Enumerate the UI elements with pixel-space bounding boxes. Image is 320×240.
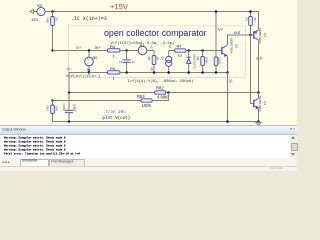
capacitor C1 bbox=[123, 51, 131, 73]
V+ feed wire bbox=[215, 12, 217, 58]
R8 rotated labels bbox=[196, 57, 208, 64]
svg-text:Q1: Q1 bbox=[263, 33, 267, 37]
svg-text:MMBT3904: MMBT3904 bbox=[258, 28, 262, 44]
resistor R1 bbox=[249, 12, 253, 36]
resistor R81 bbox=[51, 101, 55, 122]
feedback wire to out bbox=[69, 92, 155, 94]
R9 rotated labels bbox=[218, 57, 222, 64]
junction C1 bottom bbox=[125, 71, 128, 74]
svg-text:B0: B0 bbox=[93, 55, 99, 60]
svg-text:V=V(in+)-V(in-): V=V(in+)-V(in-) bbox=[66, 74, 100, 79]
junction C100 rail bbox=[68, 120, 71, 123]
svg-text:V-: V- bbox=[229, 79, 234, 84]
svg-text:1K: 1K bbox=[156, 57, 160, 61]
wire V5 to rail bbox=[45, 11, 52, 13]
wire in+ horizontal bbox=[53, 50, 108, 52]
R80 rotated labels bbox=[45, 18, 58, 24]
svg-text:MMBT3904: MMBT3904 bbox=[230, 38, 234, 54]
junction R1 rail bbox=[249, 10, 252, 13]
wire in- horizontal bbox=[69, 73, 89, 93]
svg-text:in+: in+ bbox=[95, 45, 101, 50]
junction Q1 base bbox=[249, 34, 252, 37]
resistor R7 bbox=[175, 49, 222, 52]
transistor Q1 bbox=[251, 12, 259, 93]
resistor R4 bbox=[108, 49, 139, 52]
B2 rotated label bbox=[161, 57, 165, 61]
Q3 rotated label bbox=[258, 96, 267, 112]
D1 rotated label bbox=[193, 55, 197, 70]
dashed subcircuit box bbox=[69, 26, 246, 78]
junction R6 bottom bbox=[153, 71, 156, 74]
svg-text:R4: R4 bbox=[110, 44, 116, 49]
R6 rotated labels bbox=[147, 57, 160, 61]
svg-text:R8: R8 bbox=[196, 57, 200, 61]
capacitor C100 bbox=[65, 93, 73, 122]
status bar bbox=[0, 166, 297, 172]
junction R82 out bbox=[167, 91, 170, 94]
svg-text:100K: 100K bbox=[218, 57, 222, 64]
svg-text:100K: 100K bbox=[142, 103, 152, 108]
+15V rail bbox=[53, 11, 259, 13]
wire base bus down bbox=[251, 35, 254, 104]
transistor Q2 bbox=[222, 35, 251, 73]
svg-text:C1: C1 bbox=[119, 60, 123, 64]
resistor R84 bbox=[141, 93, 168, 103]
ground (left of V5) bbox=[30, 10, 37, 14]
junction B2 bottom bbox=[167, 71, 170, 74]
resistor R9 bbox=[214, 57, 218, 73]
junction V- rail bbox=[226, 120, 229, 123]
junction B0 top bbox=[88, 49, 90, 51]
svg-text:C100: C100 bbox=[62, 104, 66, 112]
svg-text:50: 50 bbox=[55, 18, 59, 22]
svg-text:4.99K: 4.99K bbox=[157, 95, 168, 100]
svg-text:in+: in+ bbox=[76, 45, 82, 50]
svg-text:R6: R6 bbox=[147, 57, 151, 61]
R1 rotated labels bbox=[244, 18, 257, 22]
resistor R5 bbox=[89, 71, 228, 74]
svg-text:in-: in- bbox=[67, 67, 72, 72]
svg-text:.plot V(out): .plot V(out) bbox=[100, 116, 130, 121]
junction R8 top bbox=[201, 49, 204, 52]
resistor R80 (divider top) bbox=[51, 12, 55, 51]
svg-text:R84: R84 bbox=[137, 94, 145, 99]
svg-text:+15V: +15V bbox=[110, 2, 129, 11]
svg-text:V5: V5 bbox=[37, 3, 43, 8]
scrollbar bbox=[290, 135, 297, 158]
svg-text:R80: R80 bbox=[45, 18, 49, 24]
ground rail bbox=[53, 121, 259, 123]
behavioral source B0 bbox=[85, 51, 94, 73]
junction B0 bottom bbox=[88, 71, 90, 73]
junction diode bottom bbox=[187, 71, 190, 74]
resistor R82 bbox=[155, 91, 259, 94]
junction diode top bbox=[187, 49, 190, 52]
voltage source V5 bbox=[37, 7, 45, 15]
svg-text:Q3: Q3 bbox=[263, 101, 267, 105]
Q2 rotated label bbox=[230, 38, 239, 54]
svg-text:Q2: Q2 bbox=[235, 44, 239, 48]
junction C1 top bbox=[125, 49, 128, 52]
junction out node bbox=[257, 91, 260, 94]
tab bar bbox=[0, 158, 297, 165]
C100 rotated labels bbox=[62, 104, 77, 113]
junction V5/rail bbox=[51, 10, 54, 13]
svg-text:R82: R82 bbox=[156, 86, 164, 91]
title bar bbox=[0, 127, 297, 135]
svg-text:.IC X(in+)=3: .IC X(in+)=3 bbox=[71, 16, 107, 22]
junction Q2 emitter bbox=[226, 71, 229, 74]
svg-text:100pF: 100pF bbox=[72, 104, 76, 113]
svg-text:200K: 200K bbox=[204, 57, 208, 64]
svg-text:15V: 15V bbox=[31, 17, 38, 22]
svg-text:50: 50 bbox=[253, 18, 257, 22]
junction ground end bbox=[257, 120, 260, 123]
junction R9 bottom bbox=[215, 71, 218, 74]
diode D1 bbox=[187, 51, 191, 73]
wire C node bbox=[169, 50, 175, 52]
junction V+ rail bbox=[215, 10, 218, 13]
junction in- feedback bbox=[68, 91, 71, 94]
svg-text:B2: B2 bbox=[161, 57, 165, 61]
svg-text:R81: R81 bbox=[45, 106, 49, 112]
svg-text:B: B bbox=[151, 67, 154, 72]
current source B2 bbox=[166, 51, 172, 73]
text area bbox=[1, 135, 290, 158]
svg-text:R1: R1 bbox=[244, 18, 248, 22]
svg-text:out: out bbox=[256, 56, 263, 61]
svg-text:MMBT3906: MMBT3906 bbox=[258, 96, 262, 112]
resistor R6 (under node A) bbox=[152, 51, 156, 73]
node in+ junction bbox=[51, 49, 54, 52]
svg-text:I=f(V(A)-V(B), -600uA, 200uA): I=f(V(A)-V(B), -600uA, 200uA) bbox=[127, 79, 193, 84]
svg-text:open collector comparator: open collector comparator bbox=[104, 28, 207, 38]
Q1 rotated label bbox=[258, 28, 267, 44]
svg-text:.tran 20u: .tran 20u bbox=[103, 111, 126, 115]
resistor R8 bbox=[201, 51, 205, 73]
svg-text:10K: 10K bbox=[55, 106, 59, 111]
behavioral source B1 bbox=[138, 46, 154, 55]
junction R8 bottom bbox=[201, 71, 204, 74]
transistor Q3 bbox=[254, 93, 259, 122]
svg-text:1u: 1u bbox=[178, 53, 182, 58]
junction in+ / R84 wire bbox=[51, 99, 54, 102]
R81 rotated labels bbox=[45, 106, 58, 112]
svg-text:out: out bbox=[234, 30, 241, 35]
svg-text:C: C bbox=[169, 44, 172, 49]
wire R84 bbox=[53, 100, 142, 102]
output window panel bbox=[0, 125, 297, 170]
svg-text:R7: R7 bbox=[177, 44, 183, 49]
svg-text:A: A bbox=[150, 45, 153, 50]
ground symbol bbox=[256, 122, 261, 126]
svg-text:V+: V+ bbox=[218, 27, 224, 32]
V- wire down to rail bbox=[227, 73, 229, 122]
svg-text:1n: 1n bbox=[132, 60, 136, 64]
svg-text:R5: R5 bbox=[110, 66, 116, 71]
svg-text:B1: B1 bbox=[140, 43, 146, 48]
